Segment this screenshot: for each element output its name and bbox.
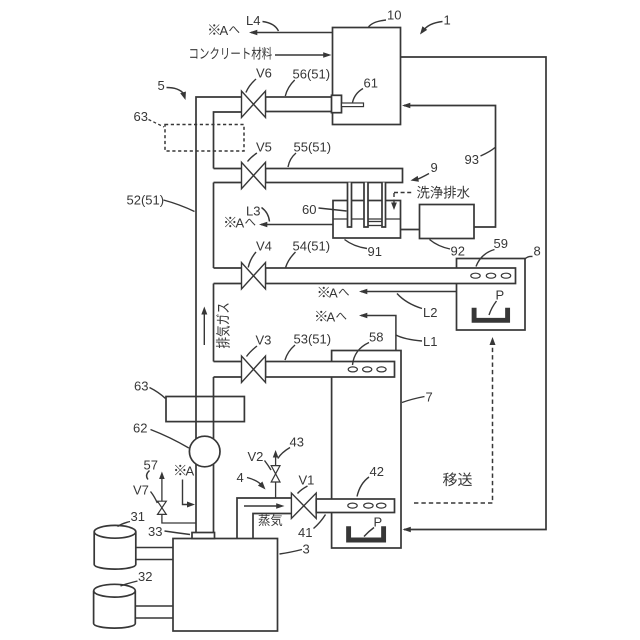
leader V1 xyxy=(298,486,308,494)
leader P in 8 xyxy=(489,301,497,315)
svg-text:53(51): 53(51) xyxy=(294,332,332,347)
wire: duct 52(51) outer wall xyxy=(196,97,242,533)
text: steam xyxy=(258,514,282,526)
leader V6 xyxy=(246,79,256,93)
leader 63 lower xyxy=(150,388,166,399)
node A (L3) xyxy=(225,217,235,227)
mixer vessel 10 xyxy=(333,28,401,125)
leader 7 xyxy=(402,397,425,403)
leader 33 xyxy=(165,531,191,535)
svg-text:1: 1 xyxy=(444,13,451,28)
leader 93 xyxy=(481,148,496,157)
svg-text:V1: V1 xyxy=(299,473,315,488)
valve V6 xyxy=(242,91,254,117)
vent arrow 43 xyxy=(275,458,277,466)
leader 56(51) xyxy=(285,80,294,96)
storage silo 7 xyxy=(332,351,401,549)
leader 92 xyxy=(430,240,451,250)
boiler tank 3 xyxy=(173,539,278,632)
leader 58 xyxy=(353,343,370,366)
svg-text:L3: L3 xyxy=(246,204,260,219)
leader 53(51) xyxy=(285,345,295,360)
pipe 56(51) to vessel 10 xyxy=(266,97,342,112)
svg-text:P: P xyxy=(496,288,505,303)
wire: steam pipe from tank 3 outer xyxy=(237,498,291,539)
leader 91 xyxy=(345,240,368,249)
svg-text:58: 58 xyxy=(369,330,383,345)
perforations 58 xyxy=(348,367,357,372)
dashed duct heater box 63 (upper) xyxy=(165,125,244,152)
leader 59 xyxy=(476,250,495,267)
leader V5 xyxy=(248,153,257,162)
leader 55(51) xyxy=(288,153,296,167)
perforations 59 xyxy=(471,273,480,278)
leader 10 xyxy=(369,20,387,27)
svg-text:56(51): 56(51) xyxy=(293,67,331,82)
svg-text:V2: V2 xyxy=(248,449,264,464)
svg-text:V7: V7 xyxy=(133,483,149,498)
svg-text:54(51): 54(51) xyxy=(293,239,331,254)
svg-text:60: 60 xyxy=(302,202,316,217)
svg-text:92: 92 xyxy=(451,244,465,259)
leader 41 xyxy=(314,515,326,529)
svg-text:91: 91 xyxy=(368,244,382,259)
svg-text:9: 9 xyxy=(431,160,438,175)
wire: duct 52(51) inner wall xyxy=(214,112,242,169)
pipe 55(51) / washing pipe 9 xyxy=(266,169,403,183)
svg-text:8: 8 xyxy=(534,244,541,259)
pipe 54(51) to tray 8 xyxy=(266,268,516,284)
leader 43 xyxy=(278,448,290,459)
text: transfer xyxy=(443,472,472,486)
leader 62 xyxy=(151,430,189,449)
valve V4 xyxy=(242,263,254,289)
dip tube 2 into tank 91 xyxy=(364,183,368,228)
svg-text:3: 3 xyxy=(303,542,310,557)
steam flow arrow xyxy=(244,505,281,507)
svg-text:52(51): 52(51) xyxy=(127,193,165,208)
line L1 to A xyxy=(361,316,396,351)
svg-text:93: 93 xyxy=(465,152,479,167)
pipe 41 into silo 7 xyxy=(316,499,394,513)
svg-text:V6: V6 xyxy=(256,66,272,81)
arrow for label 9 xyxy=(416,174,430,181)
wire: transfer loop from vessel 10 to silo 7 xyxy=(401,57,547,530)
leader L3 xyxy=(262,208,270,222)
leader 32 xyxy=(121,581,138,586)
arrow for label 1 xyxy=(423,22,443,32)
dashed wash-drain line xyxy=(394,192,414,194)
arrow for label 5 xyxy=(167,88,184,94)
svg-text:62: 62 xyxy=(133,421,147,436)
gas inlet arrow (A) into duct xyxy=(183,480,193,505)
svg-text:V4: V4 xyxy=(256,239,272,254)
dip tube 3 into tank 91 xyxy=(382,183,386,228)
svg-text:63: 63 xyxy=(134,379,148,394)
text: wash drain water xyxy=(417,186,470,199)
svg-text:A: A xyxy=(186,464,195,479)
text: exhaust gas (vertical) xyxy=(216,303,230,348)
svg-text:61: 61 xyxy=(364,76,378,91)
leader V4 xyxy=(248,252,256,268)
leader L2 xyxy=(397,294,422,309)
wire: branch stub to valve V4 xyxy=(214,267,242,269)
leader 42 xyxy=(357,477,369,497)
svg-text:42: 42 xyxy=(370,464,384,479)
valve V3 xyxy=(242,356,254,382)
line L2 to A xyxy=(361,291,457,293)
svg-text:43: 43 xyxy=(290,435,304,450)
wash-water tank 91 xyxy=(333,201,401,239)
leader L4 xyxy=(263,22,279,32)
filter box 63 xyxy=(166,397,244,422)
pump P in silo 7 xyxy=(349,526,384,540)
svg-text:V5: V5 xyxy=(256,140,272,155)
relief valve V7 line xyxy=(162,514,196,523)
line L4 to A xyxy=(251,32,333,34)
separation tank 8 xyxy=(457,259,526,331)
nozzle 61 xyxy=(342,103,364,107)
flange 33 on tank 3 xyxy=(192,533,215,539)
svg-text:41: 41 xyxy=(298,525,312,540)
node A (L2) xyxy=(319,287,329,297)
node A (L4) xyxy=(209,24,219,34)
wire: branch stub to valve V5 xyxy=(214,168,242,170)
valve V1 xyxy=(291,493,303,518)
wire: wash line 93 from pump 92 to vessel 10 xyxy=(404,106,496,228)
vent valve V2 xyxy=(275,482,277,498)
wires: tank 31 to tank 3 xyxy=(136,548,173,560)
leader 57 xyxy=(147,471,150,480)
perforations 42 xyxy=(348,503,357,508)
pump unit 92 xyxy=(420,205,475,239)
water level line in 91 xyxy=(333,218,401,220)
svg-text:63: 63 xyxy=(134,109,148,124)
valve V5 xyxy=(242,162,254,188)
nozzle mount xyxy=(332,95,342,112)
svg-text:5: 5 xyxy=(158,78,165,93)
pump P in tank 8 xyxy=(474,308,508,321)
wire: steam pipe from tank 3 inner xyxy=(253,514,291,539)
svg-text:31: 31 xyxy=(131,509,145,524)
arrow for label 4 xyxy=(247,478,262,486)
material tank 31 xyxy=(94,532,136,569)
dashed transfer (isou) line xyxy=(414,346,493,503)
svg-text:A: A xyxy=(329,286,338,301)
leader 54(51) xyxy=(286,252,296,268)
svg-text:59: 59 xyxy=(494,236,508,251)
svg-text:L1: L1 xyxy=(423,334,437,349)
svg-text:L2: L2 xyxy=(423,305,437,320)
svg-text:A: A xyxy=(236,216,245,231)
leader V7 xyxy=(151,492,158,504)
svg-text:4: 4 xyxy=(237,470,244,485)
svg-text:V3: V3 xyxy=(256,333,272,348)
svg-text:10: 10 xyxy=(387,8,401,23)
leader P in 7 xyxy=(364,528,374,537)
svg-text:33: 33 xyxy=(148,524,162,539)
svg-text:P: P xyxy=(374,515,383,530)
water seal trap 60 between tubes xyxy=(368,221,382,223)
svg-text:A: A xyxy=(327,310,336,325)
node A (L1) xyxy=(316,311,326,321)
svg-text:32: 32 xyxy=(138,569,152,584)
leader L1 xyxy=(396,335,422,341)
leader V3 xyxy=(247,346,258,357)
leader 3 xyxy=(280,550,303,555)
leader 8 xyxy=(525,256,533,259)
vent arrow 57 xyxy=(161,479,163,502)
leader 61 xyxy=(353,89,364,103)
leader 60 xyxy=(319,208,347,211)
wire: branch stub to valve V3 xyxy=(214,361,242,363)
pipe 53(51) to silo 7 xyxy=(266,362,395,378)
wire: tank 91 to pump 92 xyxy=(401,229,420,231)
svg-text:A: A xyxy=(220,23,229,38)
svg-text:L4: L4 xyxy=(246,13,260,28)
leader V2 xyxy=(265,461,272,471)
line L3 to A xyxy=(261,224,333,226)
svg-text:55(51): 55(51) xyxy=(294,140,332,155)
concrete material feed arrow xyxy=(275,54,329,56)
leader 31 xyxy=(118,522,131,527)
svg-text:57: 57 xyxy=(144,458,158,473)
dashed leader 63 upper xyxy=(149,120,165,128)
exhaust gas flow arrow xyxy=(203,314,205,346)
dip tube 1 into tank 91 xyxy=(348,183,352,228)
text: concrete material xyxy=(190,47,272,60)
blower 62 xyxy=(189,436,220,467)
wires: tank 32 to tank 3 xyxy=(135,606,173,618)
node A (inlet) xyxy=(175,465,185,475)
leader 52(51) xyxy=(164,200,195,212)
material tank 32 xyxy=(94,591,136,628)
svg-text:7: 7 xyxy=(426,390,433,405)
